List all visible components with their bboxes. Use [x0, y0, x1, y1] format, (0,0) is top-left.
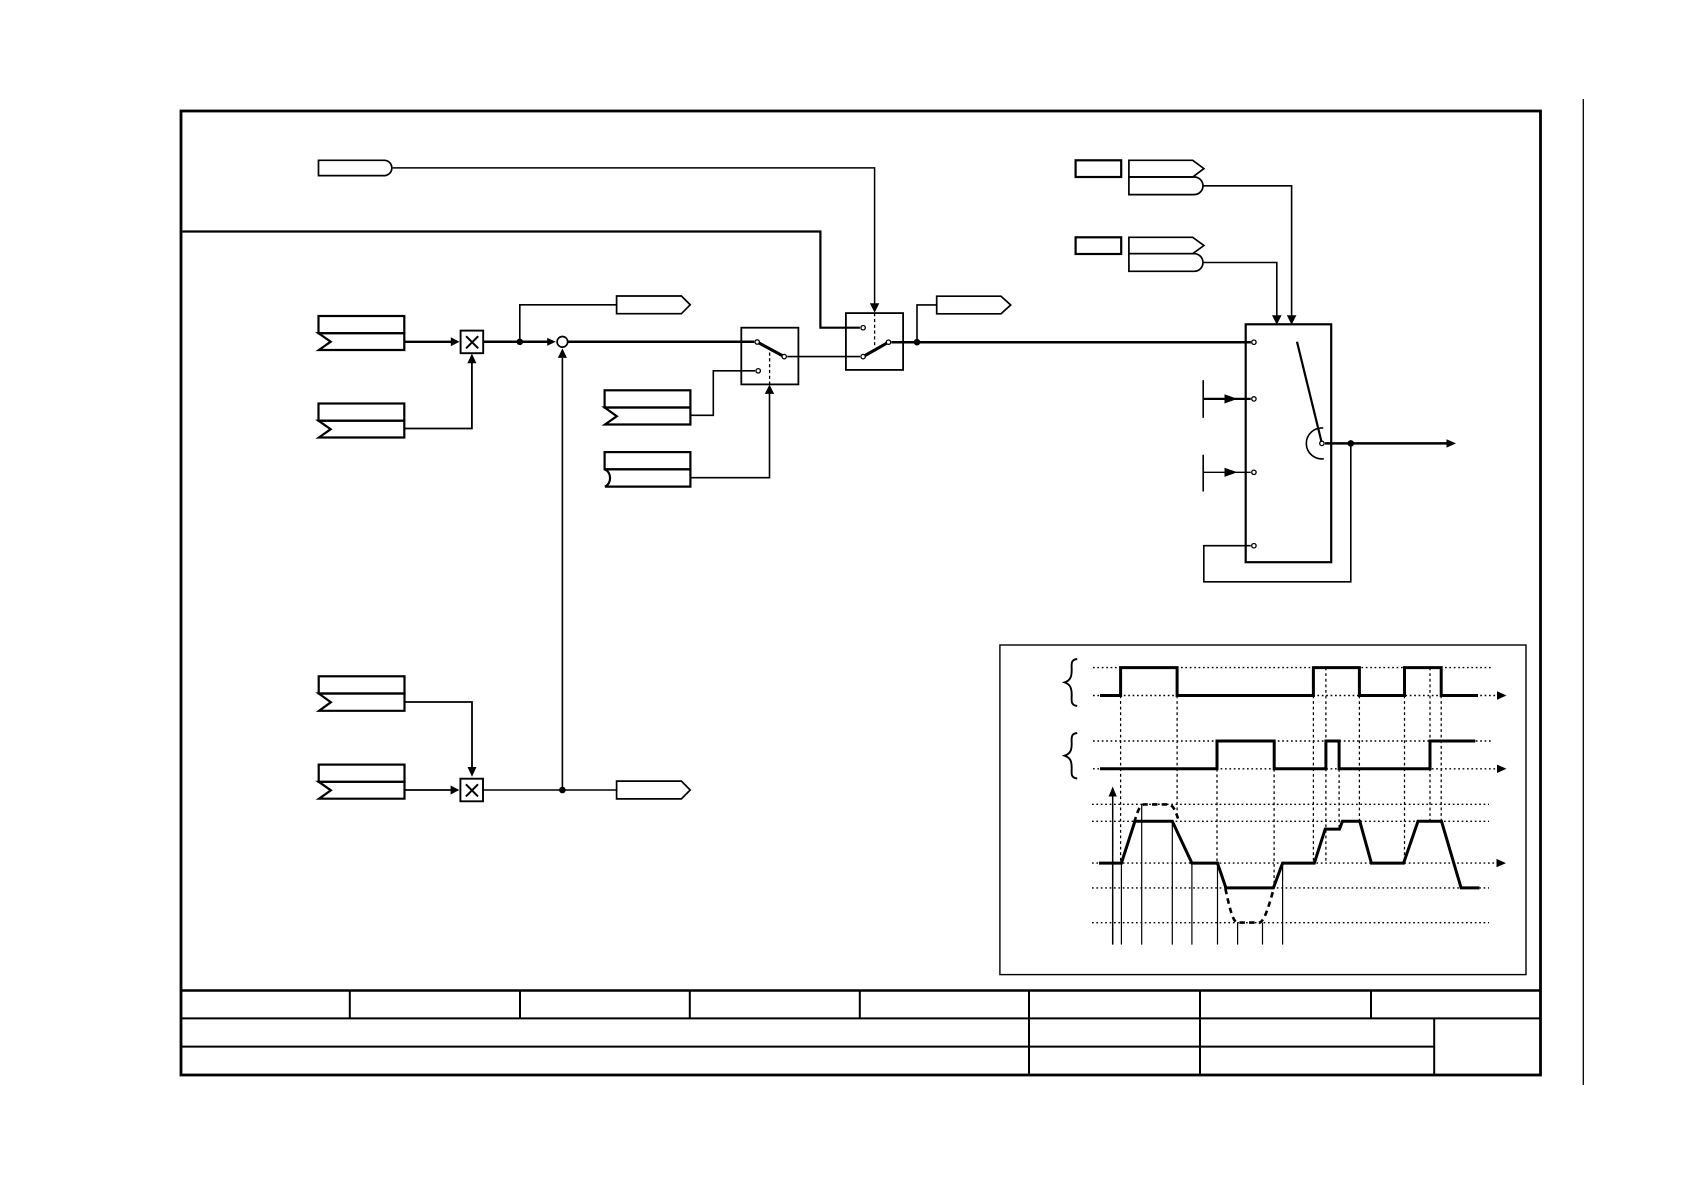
multiplier M2 box: [460, 779, 483, 802]
title block top line: [181, 989, 1541, 991]
parameter box P3 (banner, torn left edge): [605, 408, 691, 425]
switch S2 box: [846, 313, 903, 370]
title block divider x1371: [1370, 991, 1372, 1019]
dashed gridline t11: [1440, 696, 1442, 822]
arrowhead into K1 top b: [1287, 315, 1297, 325]
parameter box P5 (top rect): [319, 676, 405, 693]
dotted level wave2 low: [1093, 768, 1498, 770]
parameter box P4 (banner, curved torn left edge): [605, 469, 691, 486]
title block row line 2: [181, 1017, 1541, 1019]
output flag F2: [937, 296, 1011, 314]
wire P1 to multiplier M1: [404, 341, 451, 343]
arrowhead zero axis: [1497, 859, 1507, 867]
dashed overshoot top (without rounding): [1134, 804, 1178, 822]
title block divider x1029: [1028, 991, 1030, 1075]
page separator line right: [1582, 99, 1584, 1085]
switch S1 port in 1: [756, 369, 760, 373]
arrowhead into summing point bottom: [558, 348, 567, 358]
output flag F1: [617, 296, 691, 314]
solid marker m8: [1282, 863, 1284, 945]
title block divider x860: [859, 991, 861, 1019]
dotted level +max: [1092, 803, 1489, 805]
wire capsule X2 to selector K1 control b: [1203, 186, 1292, 317]
brace for wave 2: [1065, 733, 1078, 779]
parameter box P6 (top rect): [319, 765, 405, 782]
connector capsule X3: [1129, 254, 1203, 272]
title block divider x1434: [1433, 1018, 1435, 1074]
vertical axis of wave 3: [1112, 796, 1114, 945]
dashed gridline t6: [1325, 668, 1327, 864]
summing point circle: [557, 337, 568, 348]
solid marker m2: [1141, 804, 1143, 944]
output flag F3: [617, 781, 691, 799]
parameter box P3 (top rect): [605, 390, 691, 407]
wire P4 to S1 control: [690, 394, 769, 478]
title block divider x520: [519, 991, 521, 1019]
junction dot B: [559, 787, 566, 794]
dotted level -set: [1092, 887, 1489, 889]
multiplier M1 box: [461, 331, 484, 354]
arrowhead on T3 wire: [1225, 468, 1238, 477]
setpoint bar T2: [1202, 380, 1204, 418]
wire junction A to output flag F1: [520, 305, 617, 342]
switch S2 port in 0: [861, 326, 865, 330]
selector K1 common port: [1320, 441, 1324, 445]
arrowhead into K1 top a: [1272, 315, 1282, 325]
timing diagram box: [1000, 645, 1526, 975]
dashed gridline t4: [1273, 769, 1275, 888]
brace for wave 1: [1065, 659, 1078, 706]
dashed gridline t2: [1176, 696, 1178, 819]
wire M1 to summing point: [483, 341, 548, 344]
wire P3 to S1 port 1: [690, 371, 755, 416]
title block divider x350: [349, 991, 351, 1019]
dashed overshoot bottom (without rounding): [1225, 889, 1273, 923]
wire P2 to multiplier M1 bottom: [404, 363, 472, 429]
switch S1 box: [741, 328, 798, 385]
switch S2 port in 1: [861, 354, 865, 358]
selector K1 port 0: [1252, 340, 1256, 344]
solid marker m6: [1237, 923, 1239, 945]
dotted level wave1 low: [1093, 695, 1498, 697]
wire S1 out to S2 in: [787, 356, 860, 358]
switch S1 dashed control line: [769, 353, 771, 385]
dotted level -max: [1092, 922, 1489, 924]
selector K1 port 2: [1252, 470, 1256, 474]
arrowhead into S1 bottom: [765, 385, 774, 394]
switch S1 port out: [782, 354, 786, 358]
title block divider x690: [689, 991, 691, 1019]
wire S2 out to selector K1: [892, 341, 1251, 344]
dotted level +set: [1092, 820, 1489, 822]
connector rect R1 (top right): [1076, 160, 1122, 177]
wire from lower junction B up to summing point: [561, 358, 563, 789]
dashed gridline t1: [1120, 696, 1122, 864]
frame border: [181, 111, 1541, 1075]
feedback wire K1 output to port 3: [1204, 446, 1351, 582]
parameter box P5 (banner, torn left edge): [319, 694, 405, 711]
dashed gridline t5: [1312, 696, 1314, 864]
dashed gridline t8: [1358, 668, 1360, 822]
parameter box P6 (banner, torn left edge): [319, 782, 405, 799]
switch S1 port in 0: [755, 340, 759, 344]
dotted zero axis: [1092, 862, 1499, 864]
junction dot A: [517, 339, 524, 346]
dashed gridline t9: [1404, 696, 1406, 864]
selector K1 rotation arc: [1306, 428, 1323, 459]
junction dot C: [914, 339, 921, 346]
selector K1 port 1: [1252, 397, 1256, 401]
dotted level wave2 high: [1093, 740, 1491, 742]
wire from left border to switch S2 input (long line 2): [182, 232, 860, 328]
wave 2 (binary input signal): [1100, 741, 1475, 769]
parameter box P1 (banner, torn left edge): [319, 333, 405, 350]
connector rect R2: [1076, 237, 1122, 254]
selector K1 port 3: [1252, 544, 1256, 548]
arrowhead wave1 axis: [1497, 691, 1507, 699]
wire P5 to multiplier M2 top: [405, 702, 473, 768]
selector K1 lever: [1297, 342, 1322, 444]
solid marker m1: [1120, 863, 1122, 945]
wire T2 to K1 port 1: [1203, 398, 1251, 400]
parameter box P4 (top rect): [605, 452, 691, 469]
wave 3 (ramp output signal): [1099, 821, 1479, 888]
dashed gridline t7: [1338, 741, 1340, 829]
arrowhead output end: [1447, 439, 1457, 447]
arrowhead into M2 top: [468, 767, 477, 777]
wire capsule X3 to selector K1 control a: [1203, 263, 1277, 317]
wire summing point to switch S1: [568, 341, 754, 344]
parameter box P2 (top rect): [319, 404, 405, 421]
dashed gridline t10: [1429, 668, 1431, 822]
wire M2 to output flag F3: [483, 789, 617, 791]
solid marker m3: [1171, 821, 1173, 944]
dashed control line inside S2: [874, 313, 876, 346]
switch S2 lever: [863, 342, 888, 356]
arrowhead wave2 axis: [1497, 765, 1507, 773]
wave 1 (binary input signal): [1100, 668, 1478, 696]
arrowhead into S2 top: [870, 303, 879, 313]
parameter box P1 (top rect): [319, 316, 405, 333]
output wire of K1: [1325, 442, 1448, 445]
wire from capsule X1 to switch S2 control: [393, 168, 875, 304]
connector capsule X1 (top left): [319, 160, 392, 175]
solid marker m4: [1191, 863, 1193, 945]
solid marker m5: [1217, 863, 1219, 945]
junction dot D: [1348, 440, 1355, 447]
title block row line 3: [181, 1046, 1434, 1048]
switch S2 port out: [886, 340, 890, 344]
selector K1 box: [1246, 324, 1332, 562]
multiplier M1 X mark: [466, 336, 478, 348]
arrowhead into M2 left: [451, 786, 460, 795]
dotted level wave1 high: [1093, 667, 1491, 669]
connector flag F5: [1129, 237, 1204, 253]
connector capsule X2: [1129, 177, 1203, 195]
title block divider x1200: [1199, 991, 1201, 1075]
arrowhead into M1 bottom: [467, 354, 476, 364]
arrowhead into summing point: [547, 338, 556, 346]
wire junction C to output flag F2: [917, 305, 937, 342]
wire T3 to K1 port 2: [1203, 471, 1251, 473]
switch S1 lever: [757, 342, 784, 357]
arrowhead axis up: [1109, 787, 1117, 797]
connector flag F4: [1129, 160, 1204, 177]
dashed gridline t3: [1216, 769, 1218, 863]
multiplier M2 X mark: [466, 784, 478, 796]
wire P6 to multiplier M2: [405, 789, 452, 791]
solid marker m7: [1262, 923, 1264, 945]
arrowhead on T2 wire: [1225, 394, 1238, 403]
arrowhead into M1 left: [451, 337, 460, 346]
parameter box P2 (banner, torn left edge): [319, 421, 405, 438]
setpoint bar T3: [1202, 455, 1204, 492]
